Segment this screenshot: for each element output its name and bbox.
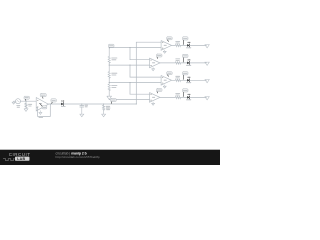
label R3 name (text above resistor) [175, 58, 180, 61]
wire: staircase horizontal to OA4 noninverting input [130, 76, 161, 78]
op-amp OA5 [150, 93, 161, 103]
wire: R5 to diode D5 [181, 96, 188, 98]
capacitor C1 (filter cap to ground) [81, 104, 83, 106]
label R1 value (text right of R1) [28, 103, 32, 106]
ground: OA2 negative supply pin [163, 51, 166, 53]
svg-text:http://circuitlab.com/c/e557be: http://circuitlab.com/c/e557beb8p [56, 155, 100, 159]
svg-text:LAB: LAB [17, 157, 25, 161]
wire: R3 to diode D3 [181, 62, 188, 64]
label D5 name (dark text above diode) [188, 94, 189, 95]
label C1 value (text right of C1) [85, 104, 88, 107]
wire: ladder tap to OA5 inverting input (row4 reference) [109, 99, 149, 101]
CircuitLab logo waveform glyph [3, 159, 15, 161]
label R2 name (text above resistor) [175, 40, 180, 43]
wire: D5 cathode to output ground [190, 96, 207, 98]
wire: ladder tap to OA2 inverting input (row1 reference) [109, 47, 161, 49]
label net value (text below bus wire) [106, 108, 110, 111]
op-amp OA1 (input buffer) [36, 98, 48, 111]
wire: R2 to diode D2 [181, 44, 188, 46]
wire: C1 to ground [81, 107, 83, 114]
resistor R2 [175, 44, 180, 47]
label R2 value (text above resistor) [176, 42, 180, 45]
ground: row 4 termination [205, 80, 209, 83]
label R5 name (text above resistor) [175, 92, 180, 95]
wire: D1 cathode along bottom row to signal bus [64, 103, 137, 105]
label D5 value (text below diode) [186, 98, 191, 101]
diode D1 [61, 103, 63, 106]
label OA1 model (text below feedback loop) [39, 116, 43, 119]
ground: OA1 negative supply pin [39, 112, 42, 114]
label flag buf (callout after OA1 output) [51, 99, 56, 102]
wire: staircase horizontal to OA3 noninverting input [130, 59, 150, 61]
label flag out3 (callout bubble after R3) [182, 54, 188, 57]
wire: ladder node a to R8 [108, 63, 110, 72]
label flag in (callout at input node) [24, 96, 29, 99]
wire: R9 to ladder ground [108, 91, 110, 96]
resistor R6 (load resistor to ground) [103, 104, 105, 105]
label R4 value (text above resistor) [176, 77, 180, 80]
label D2 name (dark text above diode) [188, 42, 189, 43]
label R6 value (text right of R6) [106, 105, 110, 108]
wire: OA4 output to resistor R4 [172, 79, 176, 81]
resistor R7 (ladder top) [108, 57, 110, 64]
CircuitLab logo LAB badge [15, 157, 30, 161]
op-amp OA4 [161, 76, 172, 86]
resistor R1 (input shunt resistor) [25, 101, 27, 103]
wire: bus corner to OA2 noninverting input [136, 41, 161, 43]
wire: staircase vertical x=130 segment 1 [129, 48, 131, 60]
label OA3 (callout above op-amp) [156, 54, 162, 57]
label OA2 (callout above op-amp) [167, 37, 173, 40]
label flag vout (callout on bus wire) [110, 98, 116, 101]
ground: row 2 termination [205, 45, 209, 48]
footer: CircuitLab watermark bar [0, 150, 220, 165]
wire: V1 to OA1 noninverting input [21, 100, 37, 102]
label R7 value [111, 57, 117, 60]
ground: OA3 negative supply pin [152, 69, 155, 71]
wire: R6 to ground [103, 110, 105, 114]
label R5 value (text above resistor) [176, 94, 180, 97]
wire: staircase vertical x=130 segment 2 [129, 65, 131, 77]
ground: below C1 [80, 114, 84, 117]
resistor R8 (ladder middle) [108, 72, 110, 79]
label OA1 (callout above op-amp) [40, 94, 46, 97]
label flag fb (callout inside feedback loop) [42, 106, 47, 109]
diode D5 [187, 96, 189, 99]
wire: staircase horizontal to OA5 noninverting input [130, 93, 150, 95]
label flag out2 (callout bubble after R2) [182, 37, 188, 40]
wire: D2 cathode to output ground [190, 44, 207, 46]
wire: staircase vertical x=130 segment 3 [129, 83, 131, 95]
wire: OA1 output node [48, 103, 61, 105]
wire: R4 to diode D4 [181, 79, 188, 81]
label V1 name (text below source) [16, 104, 20, 107]
ground: ladder bottom [107, 96, 112, 99]
wire: R1 to ground [25, 108, 27, 109]
resistor R3 [175, 62, 180, 65]
ground: row 3 termination [205, 62, 209, 65]
label D3 value (text below diode) [186, 64, 191, 67]
wire: ladder tap to OA4 inverting input (row3 reference) [109, 82, 161, 84]
wire: OA1 feedback loop output to inverting input [36, 104, 50, 116]
label D4 value (text below diode) [186, 81, 191, 84]
wire: D3 cathode to output ground [190, 62, 207, 64]
label D1 name (dark text above diode) [61, 101, 62, 102]
label R4 name (text above resistor) [175, 75, 180, 78]
label OA5 (callout above op-amp) [156, 89, 162, 92]
label OA4 (callout above op-amp) [167, 72, 173, 75]
ground: V1 negative terminal [14, 100, 16, 102]
op-amp OA3 [150, 58, 161, 68]
op-amp OA2 [161, 41, 172, 51]
ground: below R1 [24, 109, 28, 112]
label flag out4 (callout bubble after R4) [182, 72, 188, 75]
resistor R5 [175, 96, 180, 99]
diode D3 [187, 62, 189, 65]
node Vref: flag label at top of resistor ladder [108, 44, 114, 47]
label net name (text below bus wire) [106, 107, 110, 110]
wire: OA3 output to resistor R3 [160, 62, 175, 64]
label D2 value (text below diode) [186, 46, 191, 49]
label V1 value (text below source) [17, 106, 20, 109]
ground: OA5 negative supply pin [152, 103, 155, 105]
label flag out5 (callout bubble after R5) [182, 89, 188, 92]
junction dots [25, 101, 26, 102]
resistor R9 (ladder bottom) [108, 84, 110, 91]
label R3 value (text above resistor) [176, 59, 180, 62]
label D4 name (dark text above diode) [188, 77, 189, 78]
wire: ladder node b to R9 [108, 78, 110, 84]
ground: row 5 termination [205, 97, 209, 100]
wire: ladder tap to OA3 inverting input (row2 reference) [109, 64, 149, 66]
label D1 value (text below diode) [61, 105, 66, 108]
wire: D4 cathode to output ground [190, 79, 207, 81]
wire: OA5 output to resistor R5 [160, 96, 175, 98]
voltage source V1 (sine source) [16, 99, 21, 104]
resistor R4 [175, 79, 180, 82]
label R8 value [111, 72, 117, 75]
ground: below R6 [102, 114, 106, 117]
label R9 value [111, 84, 117, 87]
wire: ladder top node to R ladder [108, 48, 110, 56]
wire: OA2 output to resistor R2 [172, 44, 176, 46]
ground: OA4 negative supply pin [163, 86, 166, 88]
diode D4 [187, 79, 189, 82]
diode D2 [187, 44, 189, 47]
wire: signal bus vertical from OA1 output (x=136) [135, 42, 137, 104]
label D3 name (dark text above diode) [188, 59, 189, 60]
